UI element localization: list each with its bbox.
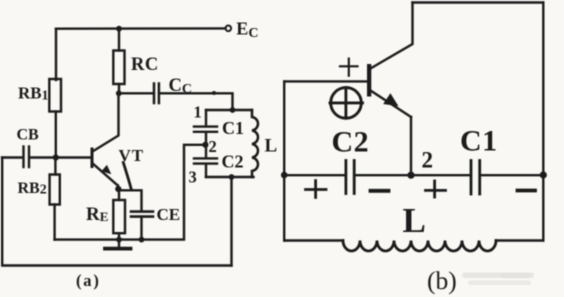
node rail left: [281, 172, 288, 179]
transistor VT emitter with arrow: [93, 164, 118, 186]
node tank bottom junction: [229, 174, 235, 180]
wire top rail (b): [413, 1, 544, 3]
svg-text:1: 1: [194, 103, 202, 122]
wire C2 to tank bottom: [205, 165, 207, 177]
wire RE top lead: [118, 189, 120, 200]
capacitor C2 (b): [344, 161, 347, 194]
node RE-ground junction: [116, 237, 122, 243]
svg-text:C1: C1: [222, 118, 244, 138]
svg-text:VT: VT: [119, 146, 145, 165]
wire CC to tank: [160, 93, 232, 110]
wire CB left lead: [2, 156, 23, 158]
wire emitter to CE: [118, 190, 141, 210]
resistor RB1: [49, 79, 61, 112]
wire tank left upper: [205, 110, 207, 126]
inductor L coil (b): [343, 241, 496, 252]
wire tank to bottom rail: [230, 177, 232, 266]
wire RB1 bottom lead: [55, 112, 57, 158]
node 2 dot: [202, 142, 208, 148]
svg-text:(a): (a): [76, 271, 101, 290]
node tank top junction: [230, 107, 236, 113]
transistor VT base bar: [91, 148, 94, 169]
svg-text:C2: C2: [222, 152, 244, 172]
svg-text:(b): (b): [427, 266, 457, 295]
wire RB2 bottom lead: [53, 205, 55, 240]
capacitor CB: [22, 147, 24, 168]
svg-text:L: L: [265, 136, 278, 157]
capacitor C2: [194, 157, 217, 159]
svg-text:C1: C1: [460, 125, 498, 158]
plus sign above base wire: [340, 65, 358, 67]
wire middle rail right segment: [481, 174, 543, 176]
wire middle rail center segment: [356, 174, 470, 176]
minus sign after C1 (b): [518, 189, 536, 193]
resistor RE: [113, 200, 125, 233]
wire CE bottom lead: [140, 218, 142, 240]
wire RB1 top lead: [55, 29, 57, 80]
scan smudge artifact: [462, 273, 534, 286]
wire bottom left segment (b): [284, 239, 343, 241]
terminal EC circle: [226, 26, 232, 32]
transistor collector (b): [371, 3, 412, 69]
ground: [118, 240, 120, 247]
transistor VT collector: [93, 93, 118, 151]
svg-text:3: 3: [189, 168, 197, 187]
svg-text:2: 2: [422, 148, 434, 173]
plus sign left of C1 (b): [426, 189, 446, 192]
wire bottom right segment (b): [496, 239, 543, 241]
wire RB2 top lead: [54, 158, 56, 175]
wire RC bottom lead: [118, 84, 120, 93]
VT label tail stroke: [123, 163, 131, 190]
node rail center (node 2): [407, 172, 414, 179]
capacitor CE: [131, 210, 153, 213]
capacitor C1 (b): [470, 161, 473, 195]
svg-text:CE: CE: [157, 205, 181, 224]
inductor L coil (a): [252, 110, 258, 177]
svg-text:C2: C2: [332, 126, 370, 159]
transistor emitter with arrow (b): [371, 91, 411, 117]
wire C1 to node 2: [205, 133, 207, 158]
svg-text:RB2: RB2: [18, 180, 47, 198]
wire top supply rail: [56, 27, 226, 30]
current source circled plus: [331, 88, 362, 119]
wire CB to base: [30, 156, 92, 158]
node base-bias junction: [53, 154, 59, 160]
wire RE bottom lead: [118, 233, 120, 239]
node collector-RC junction: [116, 90, 122, 96]
node emitter junction: [115, 186, 121, 192]
resistor RC: [113, 51, 124, 85]
wire base (b): [284, 80, 368, 82]
wire tank bottom: [206, 176, 254, 178]
wire tank top: [206, 109, 252, 111]
wire coupling CC left: [119, 92, 153, 94]
wire outer bottom loop: [2, 158, 231, 266]
wire left edge (b): [283, 81, 285, 240]
node CE-ground junction: [139, 237, 145, 243]
svg-text:CB: CB: [17, 127, 40, 144]
wire RC top lead: [118, 29, 120, 51]
svg-text:L: L: [403, 201, 426, 240]
resistor RB2: [50, 175, 60, 205]
wire middle rail left segment: [284, 174, 344, 176]
wire right edge (b): [542, 3, 544, 241]
minus sign after C2 (b): [371, 189, 389, 193]
plus sign left of C2 (b): [306, 188, 327, 191]
transistor base bar (b): [367, 64, 371, 97]
node blob on CC wire: [212, 91, 216, 95]
wire emitter ground rail: [55, 145, 204, 240]
node rail right: [540, 171, 547, 178]
node collector-supply junction: [116, 26, 122, 32]
capacitor CC: [153, 84, 156, 104]
svg-text:2: 2: [209, 137, 217, 156]
svg-text:RC: RC: [131, 55, 159, 75]
capacitor C1: [194, 125, 217, 127]
